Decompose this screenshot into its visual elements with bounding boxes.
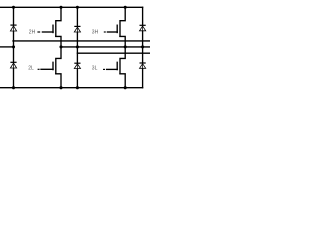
svg-text:2L: 2L (28, 66, 34, 72)
svg-text:3H: 3H (92, 30, 99, 36)
svg-text:3L: 3L (92, 66, 98, 72)
svg-text:2H: 2H (29, 30, 36, 36)
